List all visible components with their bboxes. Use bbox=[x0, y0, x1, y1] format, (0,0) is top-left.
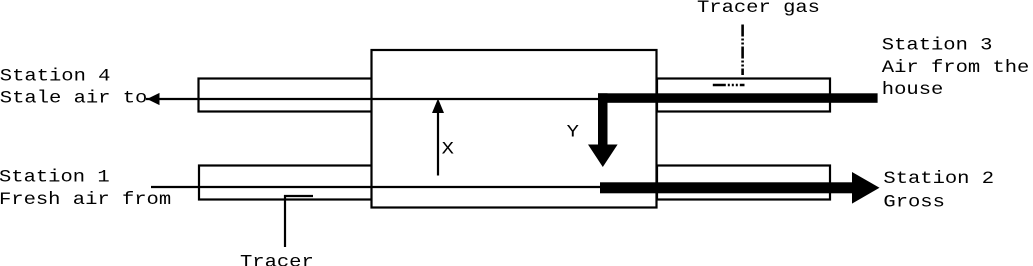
svg-text:Stale air to: Stale air to bbox=[0, 88, 147, 108]
svg-text:Station 2: Station 2 bbox=[883, 168, 994, 188]
svg-text:X: X bbox=[442, 139, 455, 159]
svg-text:Gross: Gross bbox=[883, 192, 944, 212]
svg-text:Tracer gas: Tracer gas bbox=[697, 0, 820, 17]
svg-text:Tracer: Tracer bbox=[240, 252, 314, 266]
svg-text:Station 1: Station 1 bbox=[0, 167, 110, 187]
svg-text:Air from the: Air from the bbox=[882, 57, 1030, 77]
svg-text:Y: Y bbox=[567, 122, 580, 142]
svg-text:Station 3: Station 3 bbox=[882, 35, 993, 55]
svg-text:Fresh air from: Fresh air from bbox=[0, 189, 171, 209]
svg-text:Station 4: Station 4 bbox=[0, 66, 110, 86]
svg-text:house: house bbox=[882, 80, 943, 100]
